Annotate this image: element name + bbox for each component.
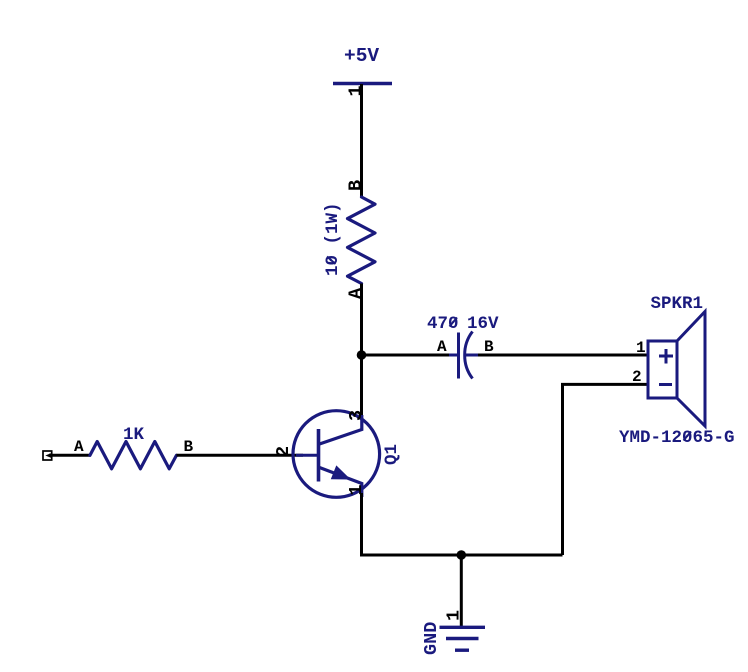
ground symbol GND (440, 627, 486, 650)
input terminal square (43, 451, 52, 460)
wire capacitor to speaker pin 1 (478, 354, 648, 357)
svg-text:1K: 1K (123, 425, 145, 445)
svg-text:B: B (346, 180, 367, 191)
slash of zero in 12065 (684, 432, 692, 441)
transistor Q1 (293, 411, 380, 498)
svg-text:YMD-12065-G: YMD-12065-G (619, 428, 735, 448)
wire resistor 1K to base (177, 454, 304, 457)
svg-text:1: 1 (346, 85, 367, 96)
wire resistor to collector (360, 284, 363, 420)
wire emitter to ground rail (360, 493, 363, 557)
svg-text:A: A (74, 438, 84, 456)
svg-text:B: B (184, 438, 194, 456)
svg-text:3: 3 (346, 410, 367, 421)
resistor 10 (1W) (348, 197, 376, 284)
wire junction to capacitor (362, 354, 451, 357)
svg-text:GND: GND (421, 622, 442, 655)
speaker SPKR1 (648, 312, 705, 427)
svg-text:Q1: Q1 (382, 444, 402, 465)
junction node at ground tap (457, 550, 467, 560)
wire +5V to resistor (360, 84, 363, 198)
svg-text:1: 1 (444, 610, 465, 621)
svg-text:+5V: +5V (344, 45, 379, 67)
slash of zero in 10 (327, 257, 336, 265)
power +5V bar (333, 82, 392, 85)
svg-text:A: A (437, 338, 447, 356)
svg-text:B: B (484, 338, 494, 356)
svg-text:A: A (346, 287, 367, 299)
capacitor C 470/16V (449, 332, 479, 379)
wire to ground symbol (460, 555, 463, 627)
junction node at capacitor tap (357, 350, 367, 360)
svg-text:2: 2 (273, 446, 294, 457)
wire speaker pin 2 (563, 384, 649, 555)
wire terminal to resistor 1K (49, 454, 90, 457)
svg-text:1: 1 (636, 339, 646, 357)
wire ground rail (360, 554, 563, 557)
svg-text:10 (1W): 10 (1W) (323, 202, 343, 276)
svg-text:1: 1 (346, 484, 367, 495)
svg-text:SPKR1: SPKR1 (651, 294, 704, 314)
resistor 1K (90, 442, 177, 469)
input terminal arrowhead (45, 453, 52, 459)
slash of zero in 470 (450, 318, 458, 327)
svg-text:470: 470 (427, 314, 459, 334)
